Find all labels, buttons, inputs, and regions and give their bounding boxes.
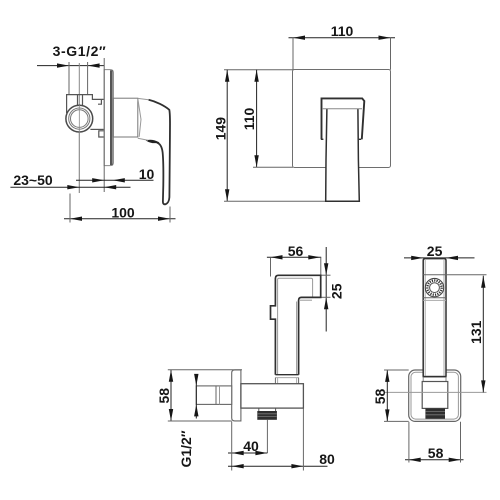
nut center extension line <box>266 420 268 453</box>
extension line 56 left <box>270 257 272 276</box>
valve center line <box>78 63 80 193</box>
extension line 110v bottom (plate bottom) <box>253 166 293 168</box>
sprayer front body <box>423 259 446 377</box>
svg-text:25: 25 <box>427 243 443 259</box>
sprayer tube stubs into block <box>422 377 424 382</box>
knurled hose nut <box>257 411 277 420</box>
extension line 131 top <box>446 274 487 276</box>
extension line 58b left <box>408 422 410 463</box>
spray face lower light line <box>423 299 446 301</box>
G1/2 inlet pipe <box>196 386 231 405</box>
svg-text:80: 80 <box>319 451 335 467</box>
extension line 149 bottom <box>224 200 326 202</box>
plate thick back edge <box>110 70 113 165</box>
extension line 58 holder bottom <box>384 420 409 422</box>
spray face outer circle <box>425 278 443 296</box>
handle neck bottom light line <box>138 138 148 140</box>
sprayer tube into block <box>275 378 298 384</box>
handle neck shadow wedge <box>147 140 159 143</box>
lever handle outer profile <box>149 100 170 204</box>
spout cap bottom line <box>322 108 362 110</box>
svg-text:110: 110 <box>241 107 257 130</box>
holder center line <box>384 391 487 393</box>
extension line 100 right (handle tip) <box>169 207 171 223</box>
cartridge box behind handle <box>113 98 137 137</box>
extension line 25 top <box>321 274 331 276</box>
spray face bead ring <box>427 281 441 295</box>
extension line 110 right <box>390 38 392 70</box>
svg-text:131: 131 <box>468 320 484 344</box>
holder square inner contour <box>411 372 458 419</box>
knurled nut front <box>425 408 445 418</box>
plate front face extension line <box>103 58 105 192</box>
valve body outline <box>67 95 104 137</box>
dimension line 3-G1/2 <box>37 63 104 67</box>
sprayer side outer outline <box>271 275 321 374</box>
svg-text:25: 25 <box>329 283 345 299</box>
extension line 58 holder top <box>384 369 409 371</box>
valve circle outer <box>66 105 93 132</box>
svg-text:58: 58 <box>156 388 172 404</box>
extension line 58b right <box>460 422 462 463</box>
outlet neck <box>258 408 260 411</box>
svg-text:58: 58 <box>372 389 388 405</box>
sprayer inner light contours <box>424 260 426 376</box>
spout shoulder nubs <box>321 138 324 140</box>
extension line 110 left <box>292 38 294 70</box>
extension line 80 right <box>302 409 304 471</box>
escutcheon plate side <box>104 70 113 166</box>
extension line 25 bottom <box>321 296 331 298</box>
svg-text:G1/2″: G1/2″ <box>178 430 194 467</box>
bracket block <box>241 384 304 408</box>
valve circle inner <box>71 110 89 128</box>
spray face inner circle <box>430 283 440 293</box>
svg-text:56: 56 <box>288 243 304 259</box>
handle stem slant inner line <box>138 98 141 136</box>
extension line 58 top <box>168 369 242 371</box>
wall plate square <box>293 70 391 168</box>
svg-text:23~50: 23~50 <box>13 172 53 188</box>
sprayer bottom cap line <box>275 374 298 376</box>
extension line pipe left <box>68 62 70 95</box>
svg-text:110: 110 <box>331 23 354 39</box>
spray face bottom line <box>423 297 446 299</box>
pipe thread divider <box>215 386 217 405</box>
sprayer side inner light contour <box>278 278 313 374</box>
svg-text:149: 149 <box>213 117 229 141</box>
svg-text:58: 58 <box>428 445 444 461</box>
head cap line <box>423 274 446 276</box>
svg-text:10: 10 <box>139 166 155 182</box>
sprayer bottom dark line <box>423 376 446 378</box>
valve circle mid <box>69 108 90 129</box>
handle top light line <box>138 98 149 99</box>
svg-text:100: 100 <box>111 204 135 220</box>
extension line pipe right <box>87 62 89 95</box>
svg-text:3-G1/2″: 3-G1/2″ <box>53 43 107 59</box>
extension line top shared 149/110v <box>224 69 293 71</box>
extension line 40/80 left <box>231 422 233 471</box>
extension line 56 right <box>320 257 322 275</box>
extension line 58 bottom <box>168 420 232 422</box>
waterfall spout front <box>322 98 365 201</box>
bracket wall plate side <box>232 370 241 421</box>
valve center line over circle <box>78 105 80 193</box>
holder square plate <box>409 370 461 421</box>
dimension line G1/2 <box>194 374 198 419</box>
extension line 100 left <box>69 194 71 223</box>
holder front block <box>422 382 448 409</box>
